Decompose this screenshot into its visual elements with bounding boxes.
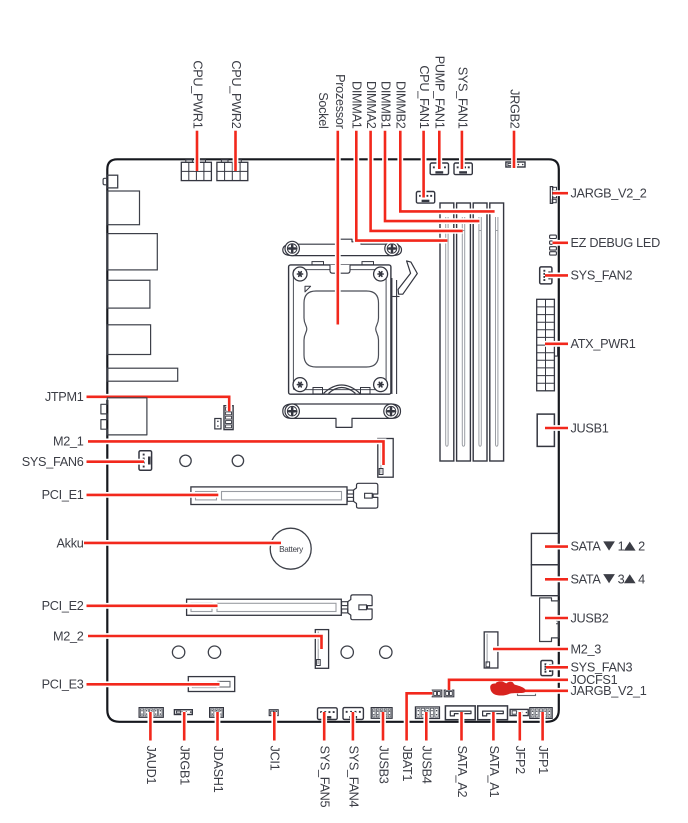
label SATA 3 4 — [571, 572, 646, 586]
callout line JCI1 — [271, 712, 277, 741]
callout line M2_2 — [88, 636, 322, 649]
callout line DIMMA1 — [356, 131, 447, 241]
callout line Akku — [84, 540, 281, 546]
svg-text:JARGB_V2_2: JARGB_V2_2 — [571, 187, 647, 201]
rear I/O block B — [107, 234, 157, 270]
svg-text:SYS_FAN6: SYS_FAN6 — [22, 455, 84, 469]
fan header PUMP_FAN1 — [430, 163, 448, 175]
svg-text:PUMP_FAN1: PUMP_FAN1 — [433, 56, 447, 129]
PCIe slot PCI_E1 — [191, 483, 378, 508]
callout line DIMMB1 — [385, 131, 479, 221]
connector JUSB2 — [540, 598, 559, 642]
callout line PUMP_FAN1 — [436, 131, 442, 169]
fan header SYS_FAN1 — [454, 163, 472, 175]
fan header SYS_FAN4 — [343, 708, 363, 720]
svg-text:SATA: SATA — [571, 540, 602, 554]
svg-text:M2_1: M2_1 — [53, 435, 84, 449]
callout line CPU_FAN1 — [421, 131, 427, 198]
mounting hole — [208, 646, 220, 658]
svg-text:SYS_FAN5: SYS_FAN5 — [318, 746, 332, 808]
connector JTPM1 — [215, 406, 233, 430]
bottom labels — [144, 746, 550, 808]
rear I/O stub — [103, 175, 118, 188]
PCIe slot PCI_E2 — [187, 595, 373, 620]
battery (Akku) — [270, 528, 311, 569]
svg-text:SYS_FAN1: SYS_FAN1 — [455, 67, 469, 129]
callout line CPU_PWR2 — [233, 131, 239, 171]
callout line JFP1 — [540, 712, 546, 741]
callout line JARGB_V2_2 — [553, 190, 569, 196]
svg-text:JUSB2: JUSB2 — [571, 611, 609, 625]
red scribble — [490, 681, 526, 695]
svg-text:1: 1 — [618, 540, 625, 554]
connector JRGB2 — [506, 162, 525, 167]
svg-text:SYS_FAN4: SYS_FAN4 — [346, 746, 360, 808]
callout line JAUD1 — [147, 712, 153, 741]
callout line Prozessor Sockel — [335, 131, 341, 325]
rear I/O block A — [107, 191, 139, 225]
svg-text:Akku: Akku — [56, 537, 83, 551]
callout line SATA_A1 — [490, 712, 496, 741]
svg-text:CPU_PWR2: CPU_PWR2 — [229, 60, 243, 128]
callout line SATA34 — [545, 576, 568, 582]
rear I/O block C — [107, 280, 150, 308]
callout line ATX_PWR1 — [545, 341, 568, 347]
CPU socket (Prozessor Sockel) — [283, 239, 418, 427]
callout line SYS_FAN6 — [87, 459, 145, 465]
connector JDASH1 — [210, 708, 224, 718]
svg-text:3: 3 — [618, 572, 625, 586]
svg-text:JBAT1: JBAT1 — [400, 746, 414, 782]
rear I/O block D — [107, 325, 150, 355]
callout line PCI_E3 — [87, 681, 220, 687]
jumper JCI1 — [269, 710, 278, 716]
mounting hole — [232, 455, 243, 466]
svg-text:JFP1: JFP1 — [536, 746, 550, 775]
svg-text:JUSB4: JUSB4 — [420, 746, 434, 784]
svg-text:PCI_E2: PCI_E2 — [42, 599, 84, 613]
svg-text:SATA_A1: SATA_A1 — [487, 746, 501, 798]
svg-text:Battery: Battery — [279, 545, 304, 554]
right labels — [571, 187, 661, 699]
mounting hole — [341, 646, 353, 658]
fan header CPU_FAN1 — [416, 192, 434, 204]
svg-text:SYS_FAN2: SYS_FAN2 — [571, 269, 633, 283]
DIMM slots DIMMA1 DIMMA2 DIMMB1 DIMMB2 — [440, 203, 504, 461]
jumper JBAT1 — [432, 690, 442, 697]
callout line SYS_FAN4 — [350, 712, 356, 741]
EZ DEBUG LED — [550, 235, 557, 255]
callout line JRGB1 — [181, 712, 187, 741]
callout line M2_3 — [493, 646, 568, 652]
svg-text:ATX_PWR1: ATX_PWR1 — [571, 337, 636, 351]
svg-text:Sockel: Sockel — [316, 92, 330, 128]
callout line PCI_E2 — [87, 603, 218, 609]
svg-text:DIMMB1: DIMMB1 — [378, 81, 392, 129]
rear I/O block E — [107, 368, 177, 381]
svg-text:EZ DEBUG LED: EZ DEBUG LED — [571, 236, 661, 250]
connector M2_2 — [315, 630, 328, 669]
mounting hole — [172, 646, 184, 658]
connector JUSB4 — [415, 707, 439, 719]
svg-text:PCI_E1: PCI_E1 — [42, 488, 84, 502]
svg-text:JRGB2: JRGB2 — [507, 89, 521, 129]
connector CPU_PWR1 — [181, 160, 211, 181]
callout line DIMMB2 — [400, 131, 494, 212]
PCIe slot PCI_E3 — [188, 677, 234, 692]
connector JRGB1 — [174, 710, 192, 715]
svg-text:JCI1: JCI1 — [268, 746, 282, 771]
callout line JUSB1 — [545, 425, 568, 431]
svg-text:JRGB1: JRGB1 — [178, 746, 192, 786]
connector SATA 3/4 — [531, 565, 559, 596]
connector JARGB_V2_1 (hidden) — [518, 692, 536, 696]
callout line JFP2 — [517, 712, 523, 741]
svg-text:CPU_PWR1: CPU_PWR1 — [190, 60, 204, 128]
fan header SYS_FAN5 — [318, 708, 338, 720]
svg-text:PCI_E3: PCI_E3 — [42, 678, 84, 692]
callout line JDASH1 — [215, 712, 221, 741]
left labels — [22, 390, 84, 691]
svg-text:4: 4 — [638, 572, 645, 586]
callout line SYS_FAN1 — [459, 131, 465, 169]
callout line DIMMA2 — [371, 131, 463, 231]
connector CPU_PWR2 — [217, 160, 248, 181]
callout line CPU_PWR1 — [194, 131, 200, 171]
connector JFP1 — [530, 708, 552, 719]
mounting hole — [380, 646, 392, 658]
jumper JOCFS1 — [444, 690, 454, 697]
callout line JUSB3 — [380, 712, 386, 741]
connector SATA_A2 — [445, 706, 475, 720]
top labels — [190, 56, 521, 130]
rear I/O block F — [101, 398, 147, 435]
connector JUSB3 — [371, 708, 392, 719]
callout line JUSB4 — [423, 712, 429, 741]
svg-text:JUSB1: JUSB1 — [571, 421, 609, 435]
callout line JUSB2 — [545, 615, 568, 621]
callout line SYS_FAN5 — [321, 712, 327, 741]
callout line SYS_FAN2 — [545, 272, 568, 278]
connector JAUD1 — [139, 708, 163, 718]
svg-text:Prozessor: Prozessor — [333, 74, 347, 129]
connector JARGB_V2_2 — [550, 187, 556, 204]
svg-text:JUSB3: JUSB3 — [376, 746, 390, 784]
callout line M2_1 — [88, 441, 384, 465]
svg-text:CPU_FAN1: CPU_FAN1 — [417, 65, 431, 128]
motherboard outline — [107, 159, 559, 722]
mounting hole — [180, 455, 191, 466]
svg-text:JFP2: JFP2 — [513, 746, 527, 775]
svg-text:DIMMA1: DIMMA1 — [350, 81, 364, 129]
connector SATA_A1 — [478, 706, 508, 720]
fan header SYS_FAN2 — [540, 267, 552, 284]
callout line SATA_A2 — [459, 712, 465, 741]
svg-text:SATA: SATA — [571, 572, 602, 586]
svg-text:SATA_A2: SATA_A2 — [455, 746, 469, 798]
callout line SYS_FAN3 — [546, 664, 568, 670]
callout line JRGB2 — [511, 131, 517, 168]
callout line JTPM1 — [87, 397, 230, 412]
svg-text:M2_2: M2_2 — [53, 629, 84, 643]
callout line JOCFS1 — [449, 680, 568, 690]
svg-text:JTPM1: JTPM1 — [45, 390, 84, 404]
connector M2_3 — [484, 632, 498, 668]
callout line SATA12 — [545, 544, 568, 550]
label SATA 1 2 — [571, 540, 646, 554]
connector JUSB1 — [537, 414, 554, 446]
svg-text:DIMMA2: DIMMA2 — [364, 81, 378, 129]
svg-text:M2_3: M2_3 — [571, 642, 602, 656]
connector M2_1 — [378, 439, 393, 478]
svg-text:JDASH1: JDASH1 — [211, 746, 225, 793]
connector ATX_PWR1 — [537, 299, 558, 391]
callout line JBAT1 — [407, 693, 433, 740]
connector SATA 1/2 — [531, 533, 559, 564]
svg-text:2: 2 — [638, 540, 645, 554]
fan header SYS_FAN3 — [541, 661, 553, 676]
svg-text:JAUD1: JAUD1 — [144, 746, 158, 785]
callout line EZ DEBUG LED — [553, 240, 569, 246]
callout line JARGB_V2_1 — [500, 688, 568, 694]
connector JFP2 — [510, 709, 528, 715]
fan header SYS_FAN6 — [139, 451, 152, 471]
callout line PCI_E1 — [87, 492, 219, 498]
svg-text:JARGB_V2_1: JARGB_V2_1 — [571, 684, 647, 698]
svg-text:DIMMB2: DIMMB2 — [394, 81, 408, 129]
